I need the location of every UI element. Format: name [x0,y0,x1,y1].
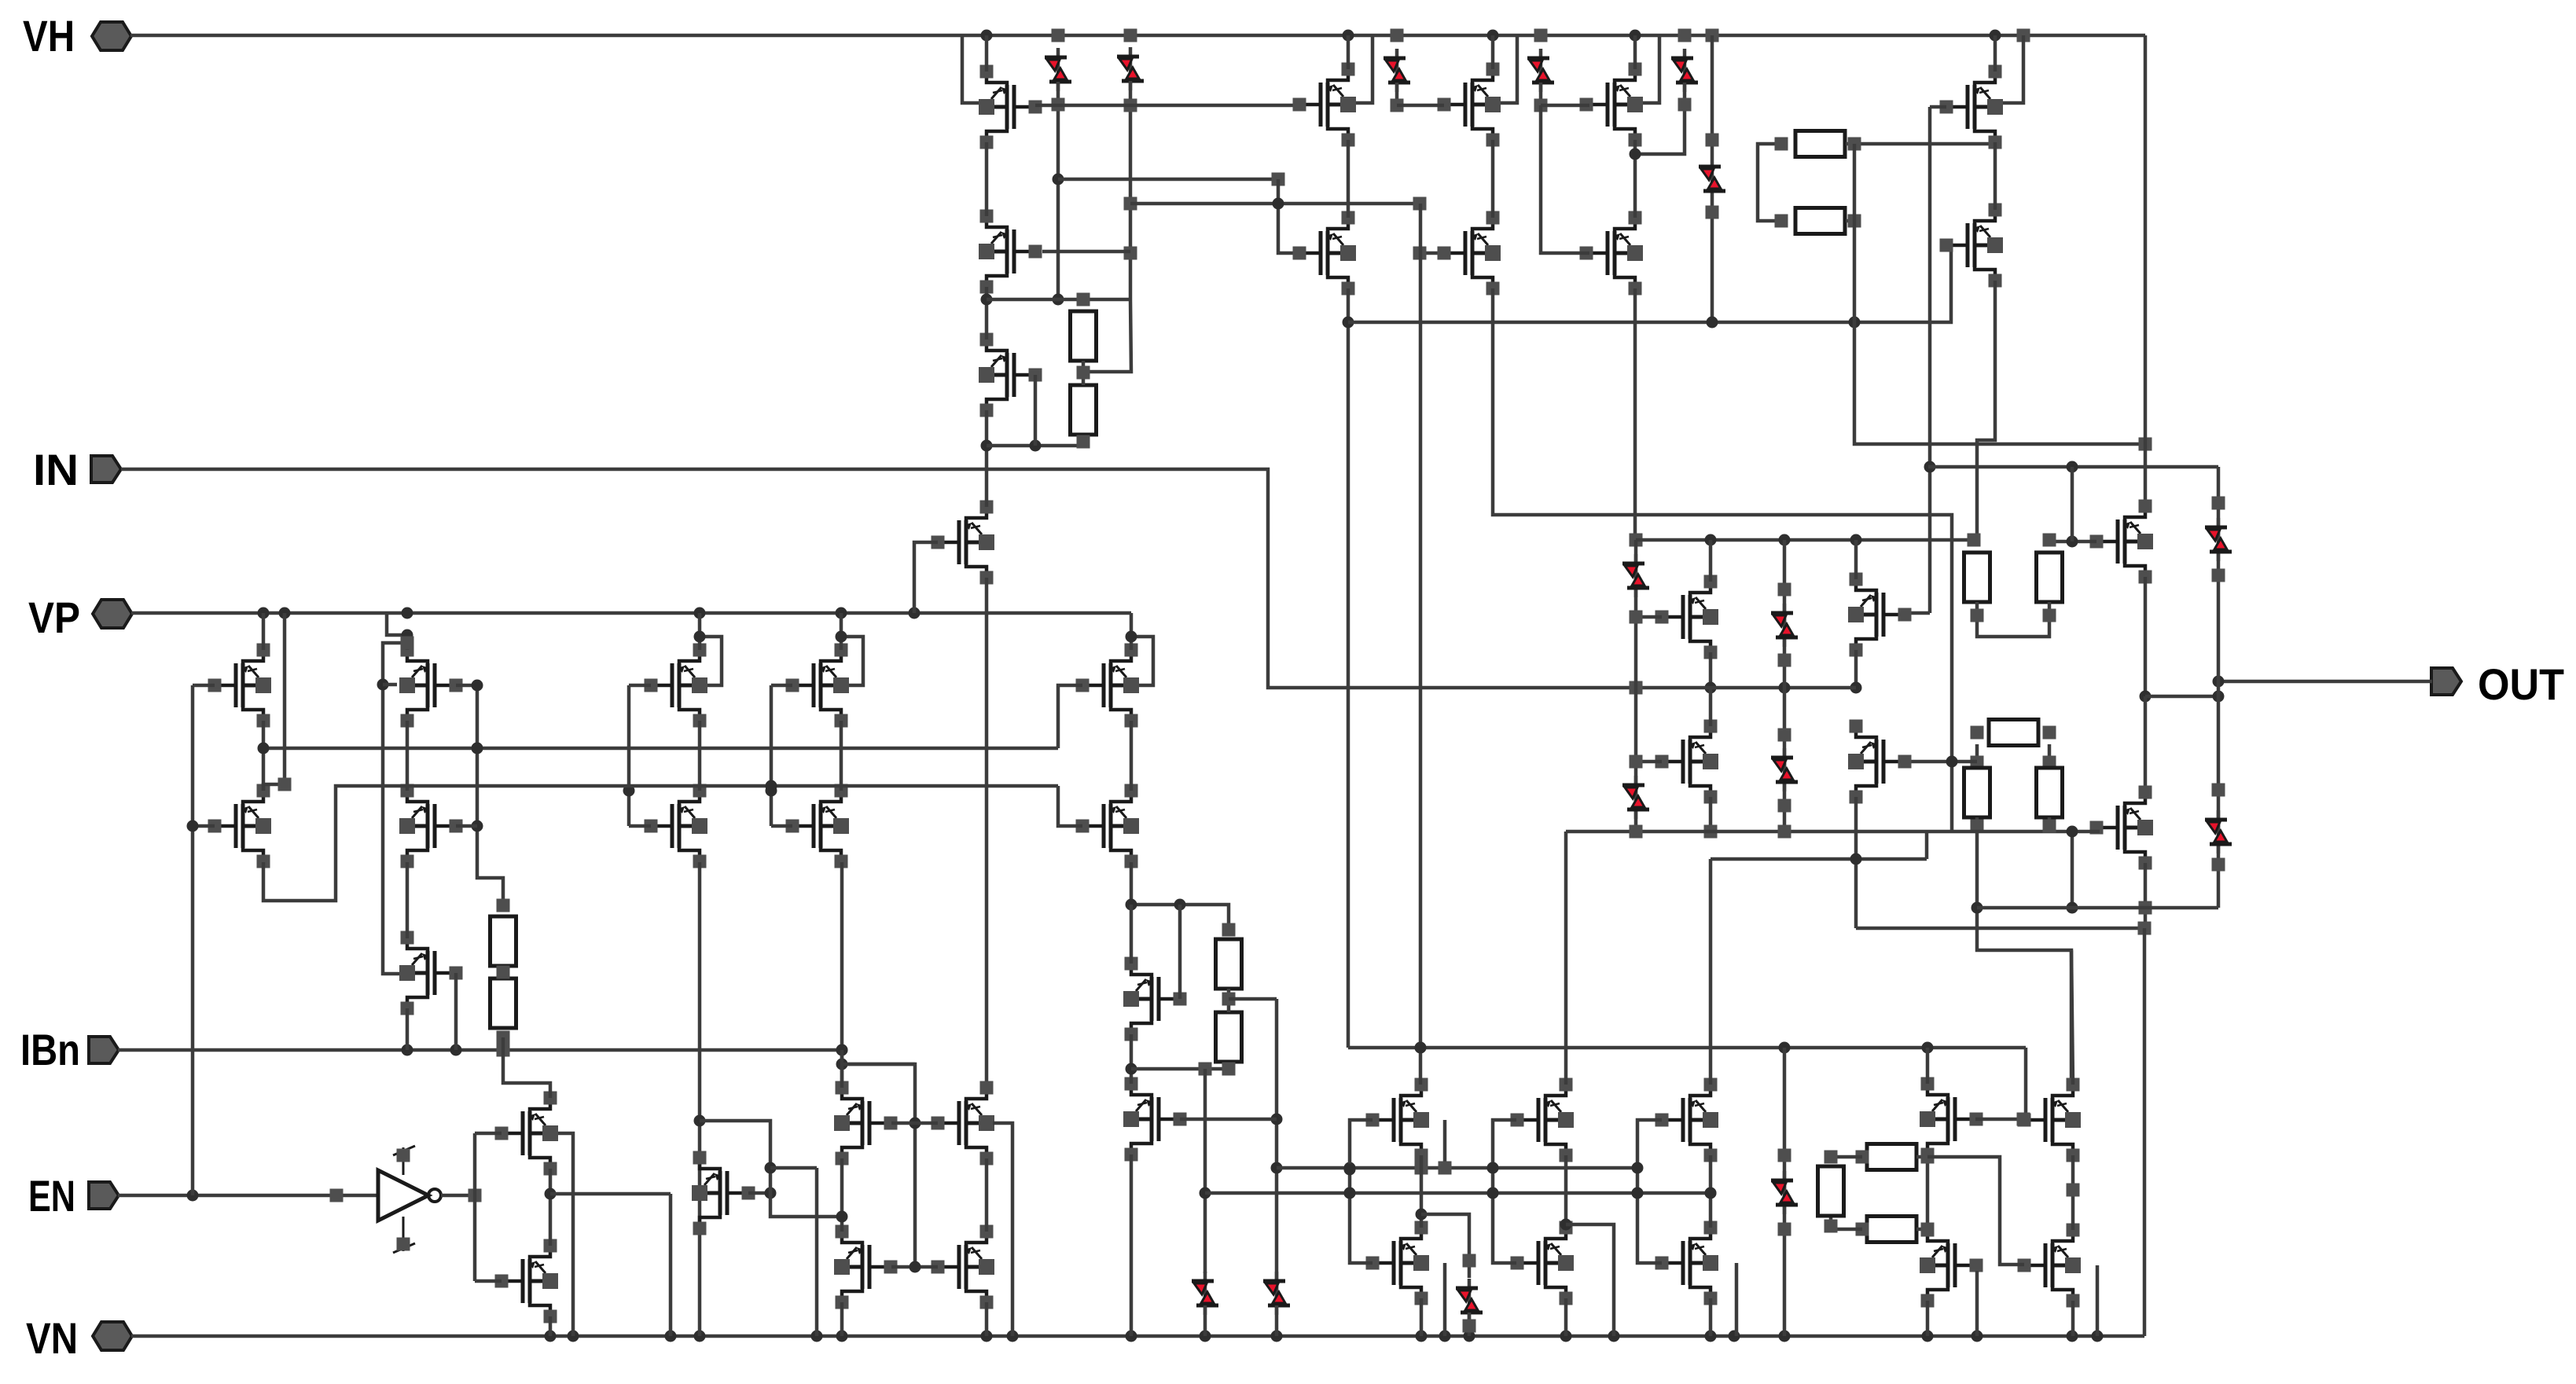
wire col2270 upper [1783,540,1787,688]
wire N1 gate [475,1132,502,1136]
wire Mc gate L [1632,1120,1663,1263]
wire out join [2145,691,2225,703]
wire N bulk tie [558,1133,573,1336]
wire bus B1 [258,743,1059,754]
wire Te source [2140,577,2152,703]
transistor Q4 [932,1225,995,1309]
wire bulk elbow x1070 [836,631,864,686]
port EN [28,1171,119,1221]
port OUT [2431,659,2564,709]
wire L4a gate [771,684,792,688]
wire bus B2 [263,780,1058,901]
transistor My [2018,1078,2082,1162]
transistor Q3 [834,1225,898,1309]
wire col1899 source down [1493,288,1952,832]
wire B2 corner to L5b gate [1058,786,1082,826]
zener diode pair D10 [1622,776,1649,819]
port VN [26,1313,132,1363]
wire Ma2 source [1420,1298,1424,1336]
zener diode pair D5 [1671,49,1698,92]
zener diode pair D16 [1771,1171,1798,1214]
wire inv out vertical [473,1133,477,1281]
wire 1533 to VN [1203,1305,1207,1336]
zener diode pair D6 [1699,157,1725,200]
transistor Mc [1655,1078,1719,1162]
wire bus y1518 [1205,1188,1717,1199]
wire T1 drain to VH [985,35,989,72]
wire bus jog down [1925,832,1929,859]
wire Mc mid [1705,1155,1717,1228]
resistor RE [2037,768,2063,817]
wire bulk elbow x890 [694,631,722,686]
transistor Mz [1920,1224,1983,1308]
port VH [23,11,131,61]
wire D2 bias column [1083,81,1137,372]
transistor Mw [2018,1224,2082,1308]
resistor R1 [1071,311,1097,361]
wire Ttail source to IBn [406,1008,410,1050]
wire My drain col [2071,950,2073,1085]
transistor Ma2 [1366,1221,1430,1305]
wire column 2178 lower [1706,200,1719,322]
wire D4 tap [1534,83,1548,112]
wire Te-Tf column [2144,696,2148,792]
wire col1070 drain [840,613,843,650]
wire Ma2 bulk stub [1443,1263,1447,1336]
wire Mc drain [1709,859,1713,1085]
transistor P1a [1293,63,1357,147]
wire RC left link [1971,726,1984,769]
wire Q2 bulk tie [993,1123,1012,1336]
wire 2359 vertical [1854,144,2152,451]
wire RC right link [2043,726,2056,769]
transistor Td [1848,720,1912,804]
wire N1-N2 [545,1169,557,1246]
transistor T1 [979,65,1042,149]
wire bus y1155 [1977,906,2218,910]
wire Tur bulk tie [2003,35,2023,103]
wire col518 bulk link [383,683,397,687]
wire Mx bulk stub [1975,1271,1979,1336]
transistor Tb [1848,573,1912,657]
wire L4b gate [771,824,792,828]
wire Mw source [2071,1301,2075,1336]
wire mid bus [1630,681,1857,695]
wire Q2-Q4 [985,1158,989,1232]
transistor L5a [1076,644,1140,728]
svg-text:OUT: OUT [2478,659,2564,709]
wire Tc source [1704,797,1718,839]
transistor Tur [1940,65,2004,149]
wire bus y1181 [1856,922,2152,935]
wire Ti2 gate lead [1180,1118,1277,1122]
wire col335 drain [262,613,266,650]
wire IBn diode jog [843,1063,915,1066]
wire Ri mid [1222,923,1236,1013]
resistor Rz1 [1867,1144,1916,1170]
wire 1039 down [815,1168,819,1336]
wire col1715 source down [1343,288,1354,1048]
transistor L3b [645,784,708,868]
wire P2b gate link [1413,247,1448,260]
resistor Rb [1795,208,1845,234]
wire colA-B x1439 [1130,721,1134,791]
wire 2728 to VN [2143,928,2147,1336]
transistor Tf [2090,786,2154,870]
resistor R2 [1071,385,1097,435]
wire Mx source node [1926,1155,1930,1230]
wire RA RB bottoms [1971,602,2056,637]
port VP [28,593,132,642]
transistor L3a [645,644,708,728]
wire Ti1 drain [1130,905,1134,964]
svg-text:VP: VP [28,593,80,642]
wire RD bottom col [1971,817,2072,1085]
wire red jog 1869 [1421,1214,1476,1278]
transistor L5b [1076,784,1140,868]
resistor RB [2037,552,2063,602]
svg-text:IBn: IBn [20,1025,80,1074]
transistor L4a [786,644,850,728]
wire Ri mid to 1624 [1229,997,1277,1001]
wire Ta gate tap [1630,611,1663,624]
wire Ma gate L [1344,1120,1373,1263]
wire Q1-Q3 [836,1158,848,1232]
zener diode pair D3 [1384,49,1410,92]
wire col2270 bottom [1778,1048,1791,1336]
transistor N1 [495,1092,559,1176]
wire gates tie 981 [766,685,777,826]
resistor RA [1964,552,1990,602]
wire gates tie 800 [623,685,635,826]
transistor Ttail [399,931,463,1015]
wire N1 drain jog [503,1050,550,1098]
transistor T4 input follower [932,501,995,585]
wire Rb mid [497,899,510,1044]
wire Ti1 gate tie [1178,905,1182,999]
svg-text:EN: EN [28,1171,75,1221]
wire colA-B x1070 [840,721,843,791]
port IN [33,445,121,494]
zener diode pair D1 [1045,48,1071,91]
transistor Ti2 [1123,1077,1187,1162]
wire Mx drain [1926,1048,1930,1084]
transistor Tlr [1940,204,2004,288]
wire col2080 source down [1630,288,1643,547]
transistor Mb2 [1511,1221,1575,1305]
wire T3 source to bus [981,410,993,507]
wire col890 down [694,862,706,1336]
wire D5 tap [1630,83,1692,160]
wire Rz left bottom [1825,1217,1863,1233]
wire P3a bulk tie [1643,35,1659,103]
wire B1 corner to L5a gate [1058,685,1082,748]
wire 1486 jog [770,1166,817,1170]
resistor Ri1 [1216,939,1242,989]
resistor RD [1964,768,1990,817]
zener diode pair D11 [1771,604,1798,647]
wire Tur-Tlr [1994,142,1997,210]
wire resistor gate bus [2049,536,2096,548]
transistor P3b [1580,211,1644,296]
transistor L2a [399,644,463,728]
wire Ti1-Ti2 [1126,1034,1137,1084]
port IBn [20,1025,119,1074]
resistor RC [1989,720,2038,746]
transistor Q1 [834,1081,898,1166]
wire bulk elbow x1439 [1126,631,1154,686]
wire Q1 source [840,1302,844,1336]
wire Mw gate link [1927,1157,2024,1265]
wire Ma bulk stub [1439,1120,1452,1175]
wire Q2 source [985,1302,989,1336]
wire col335 rowB drain jog [263,613,292,791]
wire Ma drain [1415,204,1427,1085]
wire Mb drain [1564,832,1568,1085]
wire colA-B x890 [698,721,702,791]
zener diode pair D7 [2205,518,2232,561]
transistor Mb [1511,1078,1575,1162]
wire Tb gate lead [1905,611,1930,615]
zener diode pair D12 [1771,748,1798,791]
transistor N2 [495,1239,559,1323]
transistor Te [2090,500,2154,584]
wire 2270 squares lower [1778,729,1791,813]
zener diode pair D4 [1527,49,1554,92]
inverter INV1 [378,1146,441,1253]
wire bus y1360 [1131,1063,1236,1076]
wire N2 source [549,1316,553,1336]
wire L1a gate [193,684,215,688]
transistor L1b [208,784,272,868]
wire Rz2 terminals [1856,1223,1935,1236]
transistor L1a [208,644,272,728]
transistor P3a [1580,63,1644,147]
wire Rz1 terminals [1856,1151,1935,1164]
resistor Rb1 [491,916,516,966]
wire Tur drain [1994,35,1997,72]
wire bus y1058 [1566,820,2100,839]
wire IBn jog to 1164 [836,1059,921,1268]
wire bus y1151 [1126,899,1229,931]
wire bias1333 [1348,1042,2026,1054]
wire P2a bulk tie [1501,35,1517,103]
wire 1533 column [1200,1069,1211,1273]
wire P3 mid [1633,140,1637,218]
transistor Mx [1920,1077,1983,1162]
transistor L4b [786,784,850,868]
zener diode pair D9 [1622,554,1649,597]
wire 2822 squares [2212,497,2225,872]
wire bus y567 [987,435,1090,452]
wire col1439 drain [1130,613,1134,650]
svg-text:IN: IN [33,445,79,494]
wire Tlr source jog [1977,281,1995,540]
resistor Rz [1818,1166,1844,1216]
wire EN rail [118,1189,378,1202]
wire col518 bulk tie [377,637,414,975]
wire Mz source [1926,1301,1930,1336]
wire 1960 column down [1541,105,1589,253]
wire Q1 drain [840,1050,844,1088]
svg-text:VN: VN [26,1313,78,1363]
wire 2270 squares upper [1778,583,1791,667]
wire gate bus y134 [1035,104,1299,108]
wire My-Mw [2067,1155,2080,1230]
wire 2636 vertical [2071,467,2074,541]
wire R1-R2 mid [1077,361,1090,385]
wire gate tap 1626 [1278,179,1299,253]
wire colA-B x518 [406,721,410,791]
wire L3a gate [629,684,651,688]
wire Ra right to rail [1846,138,1990,151]
wire column 2178 [1706,35,1719,157]
wire gate bus y228 [1058,173,1285,186]
wire bus y1486 [1277,1162,1637,1175]
wire Ta-Tc [1709,688,1713,726]
wire Td source down [1854,797,1858,928]
wire Rb right [1846,215,1861,228]
transistor T2 [979,210,1042,294]
wire 853 down [669,1194,673,1336]
zener diode pair D2 [1117,47,1144,90]
wire bus y687 [1636,534,2056,547]
wire Rz left top [1825,1151,1863,1164]
wire P2 mid [1491,140,1495,218]
wire L1b gate [187,820,215,832]
transistor Q2 [932,1081,995,1166]
wire gates tie 245 [191,685,195,1195]
wire node y381 [987,293,1131,307]
wire T3 gate tie [1034,375,1038,446]
wire P1a bulk tie [1356,35,1373,103]
wire IBn rail [118,1044,848,1057]
wire inverter out [441,1189,482,1202]
wire Mw bulk stub [2096,1265,2100,1336]
wire N3 gate link [748,1188,777,1199]
transistor P2b [1438,211,1501,296]
resistor Ra [1795,131,1845,157]
wire stub 1777-1833 [1397,104,1444,108]
wire gate bus y259 [1130,197,1427,211]
wire Ti2 source down [1130,1155,1134,1336]
wire Ttail gate to IBn [454,973,458,1050]
zener diode pair D13 [1263,1272,1290,1315]
wire Mb2 source [1564,1298,1568,1336]
wire D3 tap [1391,83,1404,112]
wire 890 tap [700,1121,842,1217]
wire T1-T2 [985,142,989,216]
wire P3 drain [1633,35,1637,69]
wire Rb2 to IBn [502,1037,505,1050]
wire stub 1960-2018 [1541,104,1589,108]
zener diode pair D8 [2205,810,2232,854]
wire bus y410 [1348,245,1951,329]
wire 1519 link [550,1192,671,1196]
wire rowP gates [891,1122,938,1125]
wire T4 source down to N block [985,578,989,1088]
wire L2a gate [456,680,483,692]
wire colA-B x335 [262,721,266,791]
wire col2081 lower [1634,688,1638,832]
wire VH corner down [2144,35,2148,506]
wire L2b source to Ttail [406,862,410,938]
wire Mb mid [1560,1155,1572,1231]
wire col1070 down [836,862,848,1088]
zener diode pair D14 [1192,1272,1218,1315]
wire P1 mid [1347,140,1350,218]
wire Ta drain [1709,540,1713,582]
wire T2-T3 node [981,287,993,340]
wire col890 drain [698,613,702,650]
wire bus y594 [1928,461,2218,473]
wire col2270 lower [1783,688,1787,832]
transistor P2a [1438,63,1501,147]
svg-text:VH: VH [23,11,75,61]
transistor Tc [1655,720,1719,804]
wire Tc gate tap [1630,755,1663,769]
wire Tf source [2139,863,2152,928]
transistor T3 [979,333,1042,417]
wire Ta source [1705,652,1717,694]
wire Td gate to RD [1905,756,1977,768]
zener diode pair D15 [1456,1279,1483,1322]
wire VN rail [131,1331,2144,1342]
wire Mc2 source [1709,1298,1713,1336]
wire Tb drain [1854,540,1858,579]
wire P1 drain [1347,35,1350,69]
wire VH rail [130,29,2145,42]
wire D1 column [1052,82,1065,306]
resistor Ri2 [1216,1012,1242,1062]
wire y1093 link [1711,854,1927,865]
wire T1 bulk tie [962,35,979,103]
wire Mb gate L [1487,1120,1517,1263]
wire 2455 vertical [1924,107,1936,613]
wire gates tie 607 [472,685,504,905]
transistor Ma [1366,1078,1430,1162]
wire L2b gate [456,824,477,828]
wire 1624 to VN [1275,1305,1279,1336]
transistor N3 [692,1151,755,1235]
wire T2 gate link [1042,250,1130,254]
wire Mb jog 2053 [1566,1224,1614,1336]
transistor Ta [1655,575,1719,659]
wire Mx gate bus [1975,1048,2030,1126]
wire Mc2 bulk stub [1735,1263,1739,1336]
wire Tb source [1850,650,1862,694]
transistor Ti1 [1123,957,1187,1041]
wire 1624 column [1271,999,1283,1308]
wire P2 drain [1491,35,1495,69]
resistor Rz2 [1867,1217,1916,1243]
wire IN rail [121,469,1636,688]
transistor P1b [1293,211,1357,296]
wire 2636 to bus1155 [2067,832,2078,914]
wire VP rail [131,608,1131,619]
resistor Rb2 [491,978,516,1028]
wire col518 drain jog [387,613,413,650]
wire N2 gate [475,1279,502,1283]
wire col2081 upper [1634,540,1638,688]
wire OUT net [2213,676,2433,688]
wire T4 gate [914,542,938,613]
wire col1439 rowB source down [1130,862,1134,905]
wire L3b gate [629,824,651,828]
wire 2822 column [2217,467,2221,908]
wire Ra-Rb left tie [1758,138,1788,228]
wire 1869 to VN [1463,1312,1476,1336]
